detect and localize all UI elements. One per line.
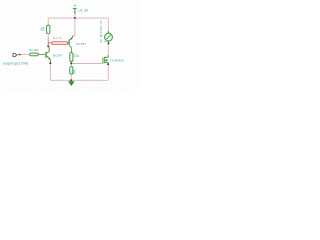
connector J1 (input): [13, 54, 17, 57]
wire top rail: [48, 17, 108, 19]
resistor R3: [70, 53, 73, 62]
wire connector to R5: [21, 54, 30, 56]
transistor Q2 BC557: [69, 36, 75, 51]
pin connector: [17, 54, 20, 56]
mosfet source dot: [107, 63, 109, 65]
label R4 10k: [70, 69, 76, 74]
label R2 10k: [40, 26, 46, 31]
gate node dot: [70, 62, 72, 64]
label R3 1k: [74, 53, 80, 57]
svg-text:T3 IRF530: T3 IRF530: [110, 58, 124, 62]
wire R2 to node: [47, 34, 49, 39]
wire source down: [107, 65, 109, 80]
pin dot connector: [19, 54, 21, 56]
wire power to rail: [74, 14, 76, 19]
wire ground rail: [50, 79, 108, 81]
ground junction dot: [70, 79, 72, 81]
transistor Q1 BC547: [44, 47, 51, 63]
wire rail to Q2 emitter: [74, 18, 76, 36]
resistor R5: [30, 53, 39, 56]
wire drain to motor: [107, 44, 109, 55]
motor terminal mark: [104, 41, 105, 42]
background sheet: [0, 0, 200, 113]
mosfet T3 IRF530: [103, 57, 108, 64]
svg-text:10k: 10k: [73, 69, 77, 74]
svg-text:U1 30: U1 30: [78, 9, 88, 13]
power flag U1: [73, 5, 77, 14]
svg-text:10k: 10k: [42, 26, 46, 31]
resistor R4: [70, 64, 72, 66]
svg-text:R5 250: R5 250: [29, 48, 38, 52]
wire Q1 emitter down: [49, 64, 51, 80]
wire gate: [72, 63, 103, 65]
resistor R1 (selected, red): [48, 42, 52, 44]
svg-text:output (pc1700): output (pc1700): [3, 62, 28, 66]
svg-text:BC547: BC547: [53, 54, 63, 58]
svg-text:DC MOTOR 30: DC MOTOR 30: [99, 20, 103, 43]
pin tip R3 top: [70, 50, 72, 52]
motor M1: [107, 18, 109, 31]
svg-text:BC557: BC557: [76, 42, 86, 46]
pin R5 to Q1 base: [38, 53, 42, 55]
resistor R2: [47, 25, 50, 33]
wire rail to R2: [47, 18, 49, 25]
node A (R1/BC547 collector): [47, 45, 49, 47]
pin dot Q1 emitter: [49, 62, 51, 64]
svg-text:R1 10: R1 10: [53, 36, 62, 40]
junction top rail: [74, 17, 76, 19]
ground: [68, 81, 75, 86]
